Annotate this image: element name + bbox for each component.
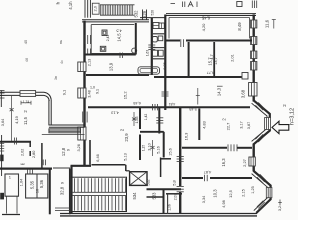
- svg-text:3,17: 3,17: [240, 121, 244, 128]
- svg-text:4,98: 4,98: [222, 200, 226, 207]
- svg-text:2,02: 2,02: [21, 149, 25, 156]
- svg-text:3в: 3в: [54, 76, 58, 80]
- svg-text:16,3: 16,3: [221, 158, 226, 167]
- svg-text:6,45: 6,45: [133, 101, 140, 105]
- svg-text:1,04: 1,04: [20, 179, 24, 186]
- svg-text:528: 528: [150, 10, 154, 16]
- svg-text:45: 45: [23, 39, 28, 44]
- svg-text:6,46: 6,46: [96, 154, 100, 161]
- svg-text:5,8: 5,8: [172, 179, 177, 185]
- svg-text:4,19: 4,19: [14, 115, 19, 124]
- svg-text:1,15: 1,15: [141, 145, 145, 151]
- svg-text:12,8: 12,8: [61, 147, 66, 156]
- svg-text:533: 533: [152, 192, 157, 200]
- svg-text:3,34: 3,34: [202, 196, 206, 203]
- svg-text:1,74: 1,74: [23, 100, 30, 104]
- svg-text:15,2: 15,2: [123, 91, 128, 100]
- svg-text:4,77: 4,77: [207, 71, 214, 75]
- svg-text:2,43: 2,43: [106, 35, 110, 42]
- svg-text:13,7: 13,7: [214, 57, 218, 64]
- svg-text:5,35: 5,35: [30, 180, 35, 189]
- svg-text:5,36: 5,36: [39, 179, 44, 188]
- svg-text:4,87: 4,87: [204, 170, 211, 174]
- svg-text:3,68: 3,68: [241, 89, 246, 98]
- svg-text:10: 10: [36, 189, 40, 193]
- svg-text:4c: 4c: [60, 60, 64, 64]
- svg-text:3,26: 3,26: [77, 144, 81, 151]
- svg-text:4,81: 4,81: [169, 102, 176, 106]
- svg-text:9: 9: [67, 149, 71, 151]
- svg-text:2,0: 2,0: [93, 5, 98, 11]
- svg-text:9,1: 9,1: [95, 89, 99, 94]
- svg-text:4,5: 4,5: [116, 29, 121, 33]
- svg-text:11,5: 11,5: [23, 116, 28, 125]
- svg-text:15,6: 15,6: [169, 148, 173, 155]
- svg-text:14,5: 14,5: [117, 33, 122, 42]
- svg-text:4,13: 4,13: [111, 111, 118, 115]
- svg-text:11,6: 11,6: [265, 19, 270, 28]
- svg-text:529: 529: [142, 10, 147, 18]
- svg-text:пь: пь: [58, 40, 63, 44]
- svg-text:532: 532: [134, 10, 139, 18]
- svg-text:10,3: 10,3: [213, 189, 218, 198]
- svg-text:2,15: 2,15: [242, 189, 246, 196]
- svg-text:1,06: 1,06: [168, 204, 172, 211]
- svg-text:32,8: 32,8: [60, 186, 65, 195]
- svg-text:16,3: 16,3: [184, 132, 189, 141]
- svg-text:4,20: 4,20: [201, 23, 206, 32]
- svg-text:0,95: 0,95: [163, 62, 167, 69]
- svg-text:13,9: 13,9: [109, 62, 114, 71]
- svg-text:4,83: 4,83: [203, 121, 207, 128]
- svg-text:h=3,12: h=3,12: [289, 108, 295, 125]
- svg-text:1,25: 1,25: [251, 186, 255, 193]
- svg-text:2,01: 2,01: [231, 54, 235, 61]
- svg-text:3,64: 3,64: [1, 119, 5, 126]
- svg-text:эвс: эвс: [20, 162, 25, 166]
- svg-text:532: 532: [147, 179, 151, 185]
- svg-text:23,9: 23,9: [124, 133, 129, 142]
- svg-text:5,16: 5,16: [157, 146, 161, 153]
- svg-text:3,10: 3,10: [148, 143, 152, 150]
- svg-text:1,63: 1,63: [146, 50, 150, 56]
- svg-text:12,5: 12,5: [228, 189, 233, 198]
- svg-text:22,7: 22,7: [226, 122, 231, 131]
- svg-text:3,2: 3,2: [278, 206, 282, 211]
- svg-text:1,42: 1,42: [144, 114, 148, 121]
- svg-text:2,80: 2,80: [32, 151, 36, 158]
- svg-text:2,27: 2,27: [242, 158, 247, 167]
- svg-text:8,49: 8,49: [237, 22, 242, 31]
- svg-text:9,1: 9,1: [62, 89, 67, 95]
- svg-text:15,7: 15,7: [207, 57, 212, 66]
- svg-text:6,45: 6,45: [201, 15, 210, 20]
- svg-text:1,0: 1,0: [90, 85, 95, 89]
- svg-text:4,1h: 4,1h: [68, 1, 73, 10]
- svg-text:534: 534: [132, 192, 137, 200]
- svg-text:3,87: 3,87: [247, 122, 251, 129]
- svg-text:3,48: 3,48: [87, 90, 91, 97]
- svg-text:1,85: 1,85: [135, 117, 139, 124]
- svg-text:5,45: 5,45: [189, 107, 196, 111]
- svg-text:2,03: 2,03: [174, 194, 178, 201]
- svg-text:2,13: 2,13: [87, 59, 91, 66]
- svg-text:5,13: 5,13: [124, 153, 128, 160]
- svg-text:14,3: 14,3: [217, 87, 222, 96]
